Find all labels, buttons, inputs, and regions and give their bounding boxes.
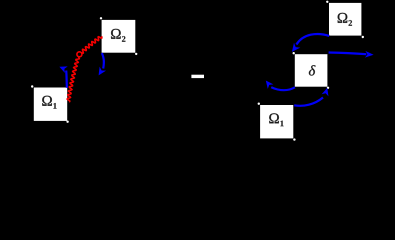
box Omega2 left (102, 20, 136, 53)
blue arrow up-left from Omega1-left TR corner (59, 66, 67, 87)
blue arc Omega2-right BL to delta TL (292, 34, 329, 52)
corner tick Omega2-right TL (326, 1, 328, 3)
corner tick Omega2-right BR (362, 36, 364, 38)
corner tick delta BR (327, 87, 329, 89)
corner tick Omega1-left BR (66, 121, 68, 123)
box Omega1 right (260, 105, 293, 138)
red squiggle loop (77, 52, 82, 57)
corner tick Omega1-right BR (293, 138, 295, 140)
blue arrow down from Omega2-left BL corner (99, 53, 106, 75)
box Omega1 left (34, 88, 67, 121)
red squiggle upper segment (82, 37, 102, 54)
corner tick Omega1-left TL (31, 85, 33, 87)
blue arc delta BL pointing up-left (266, 81, 295, 91)
box Omega2 right (329, 3, 361, 36)
corner tick delta TL (293, 52, 295, 54)
blue arc Omega1-right TR to delta BR (294, 88, 328, 106)
corner tick Omega2-left TL (100, 17, 102, 19)
blue arrow delta TR to right edge (329, 51, 374, 58)
red squiggle lower segment (67, 58, 79, 102)
minus sign (191, 75, 204, 78)
box delta right (295, 54, 328, 86)
corner tick Omega2-left BR (135, 53, 137, 55)
corner tick Omega1-right TL (258, 103, 260, 105)
